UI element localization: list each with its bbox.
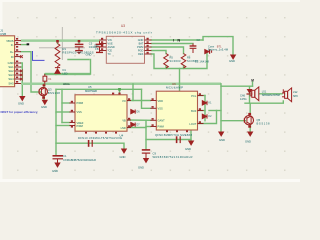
svg-text:D1: D1 <box>63 68 67 72</box>
svg-text:PWRI: PWRI <box>77 101 84 105</box>
svg-text:GND: GND <box>41 105 47 109</box>
svg-text:U3: U3 <box>121 24 125 28</box>
svg-text:GANT: GANT <box>158 119 166 123</box>
svg-text:LS1: LS1 <box>262 91 267 94</box>
svg-text:M: M <box>251 79 254 83</box>
svg-text:SH1: SH1 <box>8 65 14 69</box>
svg-text:SH4: SH4 <box>8 77 14 81</box>
svg-text:C0402: C0402 <box>89 45 97 49</box>
svg-text:WR08X8R7521X1R0ADLR: WR08X8R7521X1R0ADLR <box>153 155 193 159</box>
svg-text:GND: GND <box>8 61 14 65</box>
svg-text:BUF: BUF <box>191 109 197 113</box>
svg-text:GND: GND <box>185 147 191 151</box>
svg-text:C2: C2 <box>197 38 201 42</box>
svg-text:SH2: SH2 <box>8 69 14 73</box>
svg-text:SH5: SH5 <box>8 82 14 86</box>
svg-text:MCU&AMP: MCU&AMP <box>166 85 183 89</box>
svg-text:MCP7312R: MCP7312R <box>85 89 97 93</box>
svg-text:GND: GND <box>18 101 24 105</box>
svg-text:VSS: VSS <box>158 107 163 111</box>
svg-text:TPS61S6A20-431X chg cntlr: TPS61S6A20-431X chg cntlr <box>96 31 152 35</box>
svg-text:GND: GND <box>138 166 144 170</box>
svg-text:GND: GND <box>219 138 225 142</box>
svg-text:SPK: SPK <box>293 95 298 98</box>
svg-text:VSS: VSS <box>77 110 82 114</box>
svg-text:LED: LED <box>63 71 68 75</box>
svg-text:PWM: PWM <box>158 125 164 129</box>
svg-text:Battery_1x5,4M: Battery_1x5,4M <box>208 47 228 51</box>
svg-text:D2 1N4148: D2 1N4148 <box>195 59 210 63</box>
svg-text:Q5: Q5 <box>257 118 261 122</box>
svg-text:GND: GND <box>52 169 58 173</box>
svg-text:14HG: 14HG <box>240 98 247 101</box>
svg-text:VB: VB <box>122 118 126 122</box>
svg-text:LOUT: LOUT <box>189 122 196 126</box>
svg-text:PWM: PWM <box>77 124 83 128</box>
svg-text:GND: GND <box>120 155 126 159</box>
svg-text:C5: C5 <box>89 42 93 46</box>
svg-text:RES: RES <box>138 53 143 56</box>
svg-text:VO: VO <box>122 99 126 103</box>
svg-text:LS2: LS2 <box>293 91 298 94</box>
svg-text:Alim: Alim <box>63 82 70 86</box>
svg-text:DFN10.3X3MULT5/W75AVUXE: DFN10.3X3MULT5/W75AVUXE <box>78 136 122 140</box>
svg-text:USB: USB <box>0 32 6 36</box>
svg-text:R5: R5 <box>170 56 174 60</box>
svg-text:SH3: SH3 <box>8 73 14 77</box>
svg-text:GND: GND <box>245 140 251 144</box>
svg-text:ID: ID <box>11 55 14 59</box>
svg-text:TX: TX <box>108 53 112 56</box>
svg-text:LND: LND <box>121 126 126 130</box>
svg-text:R6: R6 <box>187 56 191 60</box>
svg-text:BSS138: BSS138 <box>48 91 60 95</box>
svg-text:CXRGBNB7521X1R0ADLR: CXRGBNB7521X1R0ADLR <box>63 158 96 162</box>
svg-text:GND: GND <box>86 52 92 56</box>
svg-text:BSS138: BSS138 <box>257 122 271 126</box>
svg-text:PCL: PCL <box>191 94 197 98</box>
svg-text:D+: D+ <box>10 50 14 54</box>
svg-text:NFET for power efficiency: NFET for power efficiency <box>1 110 38 114</box>
svg-text:D-: D- <box>11 43 14 47</box>
svg-text:C1: C1 <box>63 154 67 158</box>
svg-text:SPKR20N-7W75M: SPKR20N-7W75M <box>262 94 280 97</box>
svg-text:SC0603: SC0603 <box>170 59 182 63</box>
svg-text:R1: R1 <box>63 47 67 51</box>
svg-text:C9: C9 <box>153 152 157 156</box>
svg-text:VDD: VDD <box>158 99 164 103</box>
svg-text:QFN0.5MMPITCH SIZE8X8: QFN0.5MMPITCH SIZE8X8 <box>155 133 193 137</box>
svg-text:GND: GND <box>229 59 235 63</box>
svg-text:U5: U5 <box>88 85 92 89</box>
svg-text:VBUS: VBUS <box>6 39 14 43</box>
